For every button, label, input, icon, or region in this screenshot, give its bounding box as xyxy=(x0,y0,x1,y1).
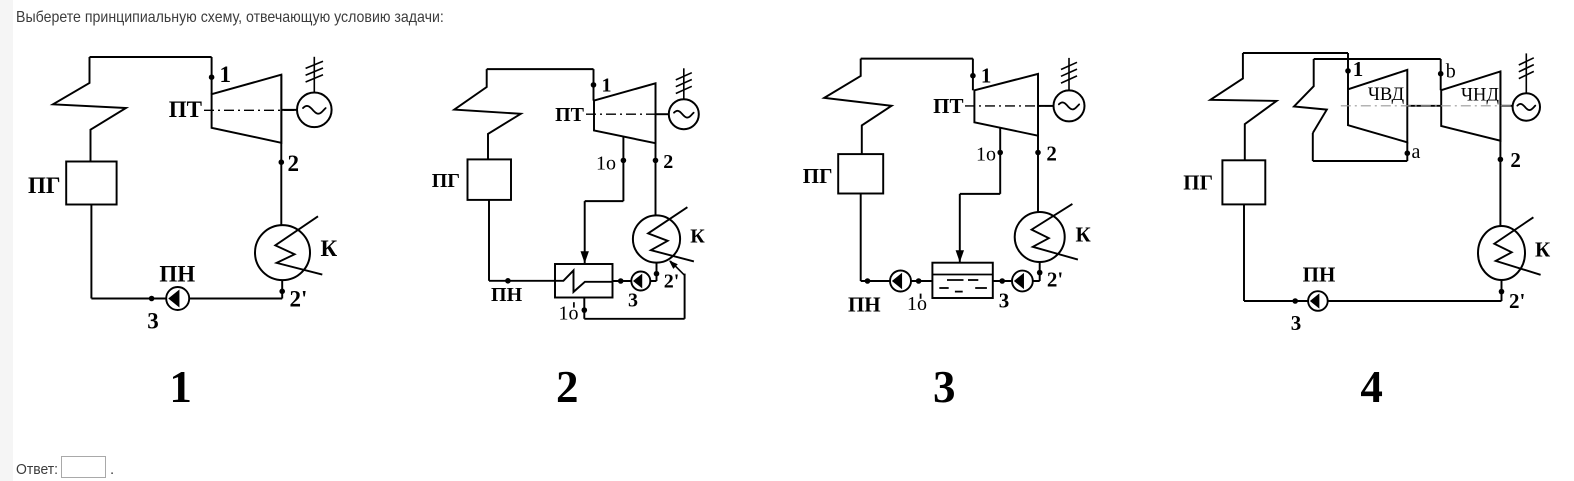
svg-text:1: 1 xyxy=(1353,57,1364,81)
svg-text:К: К xyxy=(690,226,705,248)
svg-text:ПГ: ПГ xyxy=(432,170,460,192)
svg-text:1о: 1о xyxy=(907,293,927,315)
svg-text:1о: 1о xyxy=(596,152,616,174)
svg-text:ПТ: ПТ xyxy=(555,104,585,126)
svg-text:2': 2' xyxy=(1047,268,1063,292)
svg-text:ЧНД: ЧНД xyxy=(1461,85,1499,105)
svg-text:2': 2' xyxy=(1509,289,1525,313)
svg-text:ПН: ПН xyxy=(1303,263,1336,287)
svg-text:1: 1 xyxy=(169,362,192,412)
svg-text:1: 1 xyxy=(602,75,612,97)
svg-text:3: 3 xyxy=(999,289,1010,313)
svg-text:К: К xyxy=(1076,223,1092,247)
svg-text:ПТ: ПТ xyxy=(169,97,202,122)
svg-text:a: a xyxy=(1412,141,1421,163)
svg-text:1: 1 xyxy=(981,63,992,87)
svg-text:ПН: ПН xyxy=(159,262,195,287)
svg-text:ПН: ПН xyxy=(491,284,523,306)
svg-text:1: 1 xyxy=(220,62,232,87)
svg-text:2': 2' xyxy=(290,287,308,312)
svg-text:2: 2 xyxy=(288,151,300,176)
svg-text:ПН: ПН xyxy=(848,293,881,317)
svg-text:2: 2 xyxy=(1046,142,1057,166)
svg-text:3: 3 xyxy=(933,362,956,412)
svg-text:2: 2 xyxy=(1510,148,1521,172)
svg-text:2: 2 xyxy=(663,151,673,173)
svg-text:ПТ: ПТ xyxy=(933,94,963,118)
svg-text:3: 3 xyxy=(628,289,638,311)
svg-text:ПГ: ПГ xyxy=(803,164,833,188)
svg-text:3: 3 xyxy=(1291,311,1302,335)
svg-text:1о: 1о xyxy=(976,144,996,166)
svg-text:4: 4 xyxy=(1360,362,1383,412)
svg-text:2: 2 xyxy=(556,362,579,412)
svg-text:К: К xyxy=(1535,238,1551,262)
svg-text:2': 2' xyxy=(664,270,680,292)
svg-text:3: 3 xyxy=(147,308,159,333)
svg-text:ПГ: ПГ xyxy=(28,173,61,198)
svg-text:ЧВД: ЧВД xyxy=(1368,85,1405,105)
svg-text:1о: 1о xyxy=(559,302,579,324)
svg-text:ПГ: ПГ xyxy=(1183,171,1213,195)
svg-text:К: К xyxy=(321,236,338,261)
svg-text:b: b xyxy=(1446,61,1456,83)
